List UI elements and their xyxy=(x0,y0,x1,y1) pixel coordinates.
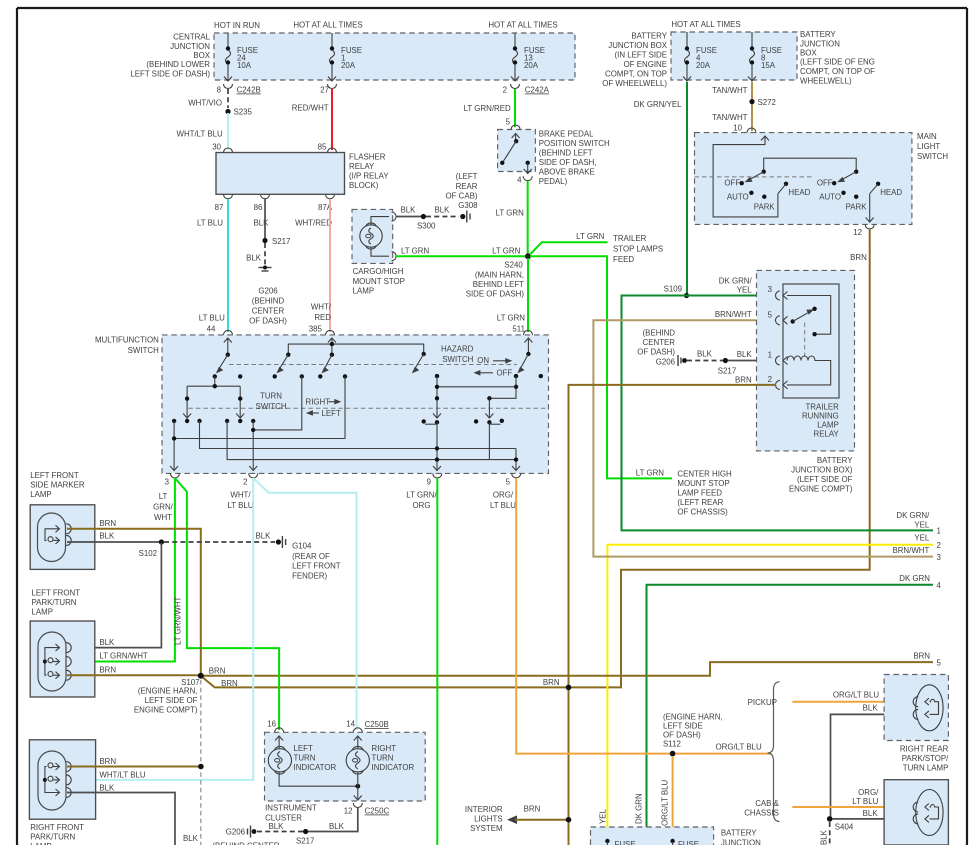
svg-text:C242A: C242A xyxy=(525,86,550,95)
svg-text:S109: S109 xyxy=(664,285,683,294)
svg-text:INDICATOR: INDICATOR xyxy=(372,763,415,772)
svg-text:LIGHTS: LIGHTS xyxy=(474,815,503,824)
svg-text:(IN LEFT SIDE: (IN LEFT SIDE xyxy=(615,51,667,60)
interior lights system feed xyxy=(465,805,571,834)
right rail drop with arrow xyxy=(236,386,244,423)
svg-text:20A: 20A xyxy=(341,61,356,70)
pin labels flasher xyxy=(197,203,333,228)
svg-text:(BEHIND: (BEHIND xyxy=(252,297,285,306)
svg-text:PARK/STOP/: PARK/STOP/ xyxy=(902,754,949,763)
svg-text:REAR: REAR xyxy=(456,182,478,191)
svg-text:WHT: WHT xyxy=(154,513,172,522)
pin 9 internal vertical xyxy=(433,374,441,471)
wire DK GRN/YEL S109 to trailer relay pin 3 xyxy=(687,295,777,297)
svg-text:C242B: C242B xyxy=(237,86,261,95)
svg-text:DK GRN: DK GRN xyxy=(899,574,930,583)
svg-text:(REAR OF: (REAR OF xyxy=(292,552,330,561)
svg-text:OFF: OFF xyxy=(497,369,513,378)
wire LT GRN/WHT pin 3 branch to instrument cluster pin 16 xyxy=(174,478,280,730)
svg-text:S235: S235 xyxy=(234,108,253,117)
svg-text:S217: S217 xyxy=(718,367,736,376)
main light switch box xyxy=(695,132,949,224)
svg-text:2: 2 xyxy=(937,541,941,550)
svg-text:2: 2 xyxy=(768,375,772,384)
splice S272 xyxy=(712,98,776,133)
svg-text:RELAY: RELAY xyxy=(814,430,840,439)
wire ORG/LT BLU pickup branch xyxy=(792,691,908,702)
svg-text:LEFT FRONT: LEFT FRONT xyxy=(30,471,79,480)
svg-text:5: 5 xyxy=(506,118,511,127)
hazard switch blade (pin 511) xyxy=(514,338,543,378)
relay coil linkage dashed xyxy=(804,323,806,357)
ground G206 (behind center of dash) xyxy=(249,266,287,326)
wire TAN/WHT fuse 8 to S272 xyxy=(712,82,752,131)
fuse 1 20A xyxy=(328,33,362,81)
svg-text:AUTO: AUTO xyxy=(727,193,749,202)
splice S300 xyxy=(417,214,436,231)
multifunction switch box xyxy=(95,335,549,474)
relay N.O. contact feed from pin 3 xyxy=(787,296,831,335)
svg-text:LAMP: LAMP xyxy=(32,608,54,617)
MFS mechanical dashed line upper xyxy=(229,364,517,366)
svg-text:RIGHT FRONT: RIGHT FRONT xyxy=(30,823,84,832)
svg-text:LEFT SIDE: LEFT SIDE xyxy=(663,722,703,731)
svg-text:SWITCH: SWITCH xyxy=(917,152,948,161)
right front park/turn lamp xyxy=(29,740,95,845)
svg-text:9: 9 xyxy=(427,478,432,487)
connector pin 85 flasher xyxy=(328,148,337,153)
wire LT GRN/ORG pin 9 down to bottom edge xyxy=(436,478,438,845)
svg-text:RED: RED xyxy=(314,313,331,322)
ground G206 (cluster side, behind center of dash) xyxy=(212,826,279,845)
battery junction box (top, dashed box) xyxy=(602,30,875,88)
svg-text:C250C: C250C xyxy=(365,807,390,816)
svg-text:DK GRN/YEL: DK GRN/YEL xyxy=(634,100,682,109)
svg-text:HOT AT ALL TIMES: HOT AT ALL TIMES xyxy=(293,21,362,30)
svg-text:BEHIND LEFT: BEHIND LEFT xyxy=(473,280,524,289)
svg-text:YEL: YEL xyxy=(737,286,753,295)
svg-text:ENGINE COMPT): ENGINE COMPT) xyxy=(789,485,853,494)
labels right front park/turn lamp wires xyxy=(99,757,145,793)
turn switch blade B xyxy=(273,353,291,379)
svg-text:LAMP: LAMP xyxy=(817,421,839,430)
svg-text:(LEFT SIDE OF: (LEFT SIDE OF xyxy=(797,475,853,484)
right rear park/stop/turn lamp (cab & chassis) xyxy=(884,780,948,845)
svg-text:G308: G308 xyxy=(458,201,478,210)
svg-text:BATTERY: BATTERY xyxy=(800,30,836,39)
svg-text:LT BLU: LT BLU xyxy=(227,501,253,510)
svg-text:RUNNING: RUNNING xyxy=(802,412,839,421)
svg-text:LT: LT xyxy=(159,492,168,501)
svg-text:OFF: OFF xyxy=(817,178,833,187)
svg-text:BRN: BRN xyxy=(209,667,226,676)
MFS pin 385 connector xyxy=(326,330,335,335)
row F link to pin 5 xyxy=(200,421,517,449)
contact dot row A feeding pin2 link xyxy=(253,374,304,430)
wire LT GRN S240 down to multifunction switch pin 511 xyxy=(497,258,528,334)
svg-text:LT GRN: LT GRN xyxy=(496,208,525,217)
svg-text:TURN: TURN xyxy=(372,754,394,763)
svg-text:YEL: YEL xyxy=(914,521,930,530)
svg-text:S217: S217 xyxy=(296,837,314,845)
svg-text:5: 5 xyxy=(937,659,942,668)
svg-text:BRN: BRN xyxy=(99,666,116,675)
svg-text:PARK: PARK xyxy=(754,202,776,211)
svg-text:LT BLU: LT BLU xyxy=(197,219,223,228)
main light switch internal feed wire xyxy=(713,136,778,217)
contact row D dots xyxy=(172,419,255,423)
S112 and engine harness note xyxy=(663,713,762,757)
svg-text:BLK: BLK xyxy=(99,784,115,793)
svg-text:CARGO/HIGH: CARGO/HIGH xyxy=(353,267,404,276)
instrument cluster xyxy=(265,720,426,823)
splice S217 (relay side) xyxy=(718,358,736,376)
svg-text:BRN: BRN xyxy=(913,652,930,661)
svg-text:OFF: OFF xyxy=(724,178,740,187)
rotated wire labels above bottom junction box xyxy=(599,780,670,826)
splice S235 xyxy=(225,108,252,117)
svg-text:(ENGINE HARN,: (ENGINE HARN, xyxy=(138,687,198,696)
svg-text:INSTRUMENT: INSTRUMENT xyxy=(265,804,317,813)
svg-text:S404: S404 xyxy=(835,823,854,832)
MFS pin 44 connector xyxy=(224,330,233,335)
svg-text:WHT/RED: WHT/RED xyxy=(295,219,332,228)
svg-text:8: 8 xyxy=(217,86,222,95)
svg-text:BRN: BRN xyxy=(735,376,752,385)
turn switch labels xyxy=(255,392,341,419)
svg-text:TAN/WHT: TAN/WHT xyxy=(712,113,748,122)
svg-text:85: 85 xyxy=(318,143,327,152)
MFS mechanical dashed line lower xyxy=(188,407,548,409)
svg-text:BLK: BLK xyxy=(863,704,879,713)
svg-text:(LEFT: (LEFT xyxy=(456,172,478,181)
connector C250C pin 12 xyxy=(344,803,390,816)
wire BRN left front park/turn lamp to S107 xyxy=(67,674,199,676)
svg-text:CENTER: CENTER xyxy=(252,307,285,316)
wire BLK cluster pin 12 to S217 xyxy=(308,808,358,832)
brake pedal position switch xyxy=(498,125,610,186)
svg-text:CENTER HIGH: CENTER HIGH xyxy=(677,470,732,479)
svg-text:LEFT: LEFT xyxy=(294,744,313,753)
svg-text:TURN LAMP: TURN LAMP xyxy=(903,764,949,773)
svg-text:PARK/TURN: PARK/TURN xyxy=(32,598,77,607)
battery junction box (bottom) xyxy=(591,827,762,845)
right turn indicator bulb xyxy=(346,736,414,800)
svg-text:44: 44 xyxy=(207,325,216,334)
svg-text:COMPT, ON TOP: COMPT, ON TOP xyxy=(605,70,667,79)
svg-text:TURN: TURN xyxy=(260,392,282,401)
svg-text:16: 16 xyxy=(267,720,276,729)
contact dot row A feeding row E xyxy=(174,374,347,438)
svg-text:SIDE MARKER: SIDE MARKER xyxy=(30,481,85,490)
svg-text:385: 385 xyxy=(309,325,323,334)
svg-text:JUNCTION: JUNCTION xyxy=(170,42,210,51)
wire LT GRN S240 to center high mount stop lamp feed xyxy=(530,256,732,516)
svg-text:BLK: BLK xyxy=(269,822,285,831)
svg-text:HAZARD: HAZARD xyxy=(441,345,474,354)
svg-text:LT GRN/WHT: LT GRN/WHT xyxy=(99,652,148,661)
connector pin 12 main light switch xyxy=(853,224,874,237)
hazard switch text and arrows xyxy=(441,345,513,378)
svg-text:BRN: BRN xyxy=(850,253,867,262)
svg-text:LEFT: LEFT xyxy=(322,409,341,418)
svg-text:MAIN: MAIN xyxy=(917,132,937,141)
svg-text:INDICATOR: INDICATOR xyxy=(294,763,337,772)
wire LT GRN trailer stop lamps feed xyxy=(531,232,664,264)
wire BRN trailer relay pin 2 to junction at x568 xyxy=(569,385,777,845)
isolated contact dot row A xyxy=(238,374,242,378)
hazard output vertical to row G xyxy=(485,398,493,459)
svg-text:WHEELWELL): WHEELWELL) xyxy=(800,76,852,85)
splice S217 xyxy=(262,237,290,246)
selection brace pickup / cab&chassis xyxy=(744,682,779,822)
svg-text:BOX: BOX xyxy=(193,51,210,60)
svg-text:SWITCH: SWITCH xyxy=(255,402,286,411)
ground G104 (rear of left front fender) xyxy=(276,536,341,581)
wire WHT/VIO (dashed) xyxy=(188,89,228,108)
svg-text:BRN: BRN xyxy=(221,679,238,688)
svg-text:INTERIOR: INTERIOR xyxy=(465,805,503,814)
svg-text:LIGHT: LIGHT xyxy=(917,142,940,151)
splice S102 xyxy=(139,539,164,558)
svg-text:S112: S112 xyxy=(663,740,681,749)
svg-text:12: 12 xyxy=(853,228,862,237)
svg-text:LT GRN: LT GRN xyxy=(497,314,526,323)
central junction box (dashed box with fuses) xyxy=(130,33,575,81)
labels left front park/turn lamp wires xyxy=(99,638,148,675)
svg-text:BATTERY: BATTERY xyxy=(817,456,853,465)
svg-text:BLK: BLK xyxy=(99,532,115,541)
svg-text:POSITION SWITCH: POSITION SWITCH xyxy=(539,139,610,148)
svg-text:BOX: BOX xyxy=(800,49,817,58)
left front park/turn lamp xyxy=(30,589,95,698)
svg-text:S240: S240 xyxy=(504,261,523,270)
MFS pin 3 connector xyxy=(165,473,180,486)
svg-text:ORG: ORG xyxy=(413,501,431,510)
svg-text:TAN/WHT: TAN/WHT xyxy=(712,86,748,95)
wire DK GRN/YEL S109 left/down to right edge (circuit 1) xyxy=(622,296,941,536)
svg-text:YEL: YEL xyxy=(599,808,608,824)
svg-text:SIDE OF DASH): SIDE OF DASH) xyxy=(466,290,525,299)
connector pin 86 flasher xyxy=(261,194,270,199)
svg-text:DK GRN/: DK GRN/ xyxy=(719,277,753,286)
svg-text:BRN: BRN xyxy=(543,678,560,687)
svg-text:BATTERY: BATTERY xyxy=(631,32,667,41)
svg-text:LAMP FEED: LAMP FEED xyxy=(677,489,722,498)
wire WHT/LT BLU pin 2 branch to instrument cluster pin 14 xyxy=(253,478,356,730)
svg-text:OF ENGINE: OF ENGINE xyxy=(624,60,667,69)
svg-text:LT GRN/WHT: LT GRN/WHT xyxy=(174,596,183,645)
svg-text:ORG/LT BLU: ORG/LT BLU xyxy=(661,780,670,826)
svg-text:OF DASH): OF DASH) xyxy=(637,348,675,357)
svg-text:10A: 10A xyxy=(237,61,252,70)
fuse (yellow feed) bottom box xyxy=(605,839,635,845)
relay pin 1 connector xyxy=(768,351,788,366)
svg-text:WHT/: WHT/ xyxy=(311,303,332,312)
svg-text:5: 5 xyxy=(768,311,773,320)
connector pin 27 xyxy=(320,84,336,95)
svg-text:BLK: BLK xyxy=(820,829,829,845)
svg-text:BRAKE PEDAL: BRAKE PEDAL xyxy=(539,130,594,139)
svg-text:LEFT SIDE OF DASH): LEFT SIDE OF DASH) xyxy=(130,70,210,79)
left turn indicator bulb xyxy=(268,736,358,786)
svg-text:87: 87 xyxy=(215,203,224,212)
svg-text:PARK/TURN: PARK/TURN xyxy=(30,833,75,842)
splice S109 xyxy=(664,285,690,299)
svg-text:ORG/LT BLU: ORG/LT BLU xyxy=(716,743,762,752)
svg-text:WHT/LT BLU: WHT/LT BLU xyxy=(99,771,145,780)
wire BLK cargo lamp to S300 xyxy=(396,206,422,217)
svg-text:TURN: TURN xyxy=(294,754,316,763)
svg-text:(LEFT REAR: (LEFT REAR xyxy=(677,498,723,507)
svg-text:3: 3 xyxy=(768,285,773,294)
svg-text:BLK: BLK xyxy=(99,638,115,647)
svg-text:CENTER: CENTER xyxy=(643,338,676,347)
right rear park/stop/turn lamp (pickup) xyxy=(884,675,949,773)
svg-text:OF DASH): OF DASH) xyxy=(663,731,701,740)
svg-text:20A: 20A xyxy=(524,61,539,70)
svg-text:HOT IN RUN: HOT IN RUN xyxy=(214,21,260,30)
MFS pin 511 connector xyxy=(524,330,533,335)
svg-text:LT BLU: LT BLU xyxy=(490,501,516,510)
wire RED/WHT fuse1 to flasher pin 85 xyxy=(292,89,332,152)
svg-text:HEAD: HEAD xyxy=(788,188,810,197)
svg-text:LT GRN: LT GRN xyxy=(492,247,521,256)
svg-text:LT GRN/: LT GRN/ xyxy=(406,491,437,500)
wire BLK S217 to trailer relay pin 1 xyxy=(728,350,776,361)
switch section 2 (OFF/AUTO/PARK/HEAD) xyxy=(817,170,903,212)
svg-text:G104: G104 xyxy=(292,542,312,551)
svg-text:FENDER): FENDER) xyxy=(292,572,327,581)
wire LT GRN/WHT pin 3 to left front park/turn lamp xyxy=(67,478,175,662)
svg-text:BLK: BLK xyxy=(246,254,262,263)
svg-text:4: 4 xyxy=(937,581,942,590)
labels above MFS pins 44 and 385 xyxy=(199,303,332,334)
svg-text:FUSE: FUSE xyxy=(678,840,699,845)
wire BLK S102 down to left front park/turn lamp xyxy=(67,543,161,648)
wire BLK dashed S217 to G206 xyxy=(257,822,303,832)
svg-text:GRN/: GRN/ xyxy=(153,503,174,512)
svg-text:PARK: PARK xyxy=(846,202,868,211)
svg-text:RIGHT: RIGHT xyxy=(372,744,397,753)
svg-text:BRN: BRN xyxy=(99,519,116,528)
connector pin 87A flasher xyxy=(326,194,335,199)
svg-text:LT BLU: LT BLU xyxy=(852,797,878,806)
wire BRN right front park/turn lamp to S107 dashed link xyxy=(67,764,204,770)
wire BRN circuit 5 from S107 to right edge xyxy=(201,652,942,676)
relay coil xyxy=(787,356,831,385)
fuse (orange feed) bottom box xyxy=(670,839,699,845)
turn switch contact rail row B left xyxy=(187,376,240,388)
svg-text:(BEHIND LOWER: (BEHIND LOWER xyxy=(146,60,210,69)
svg-text:LT GRN: LT GRN xyxy=(636,469,665,478)
svg-text:RIGHT REAR: RIGHT REAR xyxy=(900,745,949,754)
svg-text:RELAY: RELAY xyxy=(349,162,375,171)
trailer running lamp relay (battery junction box) xyxy=(757,270,855,493)
svg-text:1: 1 xyxy=(937,527,941,536)
svg-text:(BEHIND CENTER: (BEHIND CENTER xyxy=(212,842,279,845)
svg-text:C250B: C250B xyxy=(365,720,389,729)
svg-text:G206: G206 xyxy=(226,828,246,837)
svg-text:TRAILER: TRAILER xyxy=(613,234,647,243)
svg-text:(I/P RELAY: (I/P RELAY xyxy=(349,172,389,181)
svg-text:STOP LAMPS: STOP LAMPS xyxy=(613,245,663,254)
svg-text:LEFT FRONT: LEFT FRONT xyxy=(32,589,81,598)
svg-text:CAB &: CAB & xyxy=(755,799,779,808)
svg-text:3: 3 xyxy=(165,478,170,487)
svg-text:SYSTEM: SYSTEM xyxy=(470,824,502,833)
svg-text:WHT/LT BLU: WHT/LT BLU xyxy=(177,130,223,139)
svg-text:MOUNT STOP: MOUNT STOP xyxy=(353,277,405,286)
pin 385 feed rail xyxy=(288,338,423,357)
fuse 24 10A xyxy=(224,33,258,81)
svg-text:BRN: BRN xyxy=(524,805,541,814)
svg-text:511: 511 xyxy=(512,325,525,334)
svg-text:FLASHER: FLASHER xyxy=(349,153,386,162)
svg-text:S300: S300 xyxy=(417,222,436,231)
splice S404 xyxy=(827,816,854,831)
wire BLK dashed S217 to G206 xyxy=(246,243,265,265)
wire WHT/RED flasher 87A to multifunction switch pin 385 xyxy=(329,199,331,332)
svg-text:SWITCH: SWITCH xyxy=(442,355,473,364)
svg-text:PEDAL): PEDAL) xyxy=(539,177,568,186)
wire WHT/LT BLU pin 2 to right front park/turn lamp xyxy=(67,478,253,780)
wire BRN main light switch pin 12 down/left to S107 branch xyxy=(201,229,870,687)
splice S240 xyxy=(466,253,531,298)
connector pin 87 flasher xyxy=(224,194,233,199)
svg-text:JUNCTION: JUNCTION xyxy=(721,839,761,845)
svg-text:20A: 20A xyxy=(696,61,711,70)
relay switch blade xyxy=(791,307,817,324)
svg-text:WHT/: WHT/ xyxy=(230,491,251,500)
wire LT GRN/RED fuse 13 to brake pedal position switch xyxy=(464,89,515,127)
relay pin 5 connector xyxy=(715,310,788,325)
svg-text:CENTRAL: CENTRAL xyxy=(173,33,210,42)
svg-text:30: 30 xyxy=(212,143,221,152)
svg-text:ABOVE BRAKE: ABOVE BRAKE xyxy=(539,168,595,177)
svg-text:DK GRN: DK GRN xyxy=(635,793,644,824)
svg-text:HOT AT ALL TIMES: HOT AT ALL TIMES xyxy=(671,20,740,29)
pin 5 exit from row F xyxy=(512,449,520,471)
svg-text:LAMP: LAMP xyxy=(30,490,52,499)
svg-text:86: 86 xyxy=(254,203,263,212)
junction dot BRN at brown cross xyxy=(543,678,571,690)
fuse 4 20A xyxy=(683,32,717,81)
svg-text:LT GRN/RED: LT GRN/RED xyxy=(464,104,511,113)
svg-text:27: 27 xyxy=(320,86,329,95)
svg-text:MULTIFUNCTION: MULTIFUNCTION xyxy=(95,336,159,345)
svg-text:OF CAB): OF CAB) xyxy=(445,192,477,201)
connector pin 4 brake pedal switch xyxy=(517,176,532,185)
svg-text:1: 1 xyxy=(768,351,772,360)
svg-text:OF WHEELWELL): OF WHEELWELL) xyxy=(602,79,667,88)
turn switch blade C xyxy=(318,355,332,379)
svg-text:5: 5 xyxy=(506,478,511,487)
splice S217 (cluster side) xyxy=(296,829,314,845)
svg-text:G206: G206 xyxy=(258,287,278,296)
connector C242B pin 8 xyxy=(217,84,261,95)
svg-text:ENGINE COMPT): ENGINE COMPT) xyxy=(134,706,198,715)
svg-text:RIGHT: RIGHT xyxy=(306,398,331,407)
svg-text:2: 2 xyxy=(243,478,247,487)
svg-text:3: 3 xyxy=(937,553,942,562)
svg-text:(MAIN HARN,: (MAIN HARN, xyxy=(475,271,524,280)
connector pin 30 flasher xyxy=(224,148,233,153)
svg-text:2: 2 xyxy=(503,86,507,95)
wire labels below MFS xyxy=(153,491,516,523)
relay pin 3 connector xyxy=(719,277,788,301)
wire WHT/LT BLU to flasher pin 30 xyxy=(177,113,228,152)
